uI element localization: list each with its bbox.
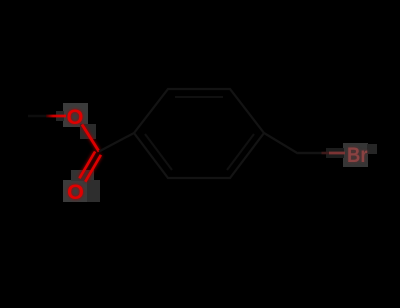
bond C9-Br : bromine half (dark red, soft): [329, 151, 345, 154]
ring inner double bond C2=C3: [175, 96, 223, 98]
ring inner double bond C4=C5: [227, 134, 254, 170]
ring inner double bond C6=C1: [145, 134, 172, 170]
bond C8(methyl)-O1 : oxygen half (red, soft glow): [46, 114, 66, 117]
halo block behind carbonyl O2 label: [63, 170, 100, 202]
halo block behind ester O1 label: [56, 103, 96, 139]
bond C8(methyl)-O1 : carbon half (dark): [28, 115, 48, 118]
atom O2 (carbonyl oxygen): [67, 180, 84, 204]
benzene ring C1-C2-C3-C4-C5-C6 outer hexagon: [134, 89, 264, 178]
atom O1 (ester oxygen): [67, 105, 84, 129]
bond C4-C9 (ring to CH2): [264, 133, 298, 154]
bond C7=O2 double bond line b (red): [85, 155, 101, 182]
bond C7-C1 (carbonyl to ring): [99, 133, 134, 152]
atom Br (bromine): [347, 143, 368, 167]
bond O1-C7 (ester linkage, red): [82, 125, 99, 152]
bond C7=O2 double bond line a (red): [79, 152, 95, 179]
svg-text:O: O: [67, 105, 84, 129]
svg-text:Br: Br: [347, 143, 368, 167]
bond C9-Br : transition segment: [322, 152, 330, 155]
svg-text:O: O: [67, 180, 84, 204]
halo block behind Br label: [326, 143, 377, 167]
bond C9-Br : carbon half (dark): [298, 152, 322, 155]
